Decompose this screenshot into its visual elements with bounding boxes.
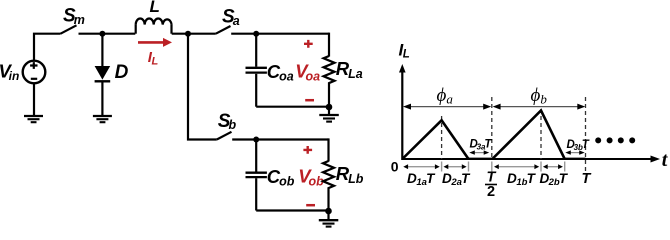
ground (branch b) xyxy=(319,211,339,227)
switch Sa xyxy=(216,26,231,34)
dashed line (T) xyxy=(585,97,587,174)
resistor RLa xyxy=(324,56,335,107)
svg-text:ϕa: ϕa xyxy=(437,85,454,107)
dimension phi_b xyxy=(493,104,586,110)
ground (diode) xyxy=(93,116,112,122)
node (Sa out) xyxy=(253,31,259,37)
minus (b) xyxy=(306,204,315,207)
wire down to RLa xyxy=(328,33,330,57)
dimension D1a xyxy=(403,164,439,169)
wire Vin bottom xyxy=(33,83,35,116)
inductor L xyxy=(136,19,172,34)
waveform flat segment b (zero current) xyxy=(565,157,586,159)
svg-text:T: T xyxy=(582,171,592,187)
svg-text:Sm: Sm xyxy=(63,6,85,28)
dashed line (peak2) xyxy=(540,109,542,159)
node (branch a gnd) xyxy=(326,104,333,111)
node (diode top) xyxy=(99,31,105,37)
wire Vin top xyxy=(34,34,61,61)
svg-text:IL: IL xyxy=(148,49,159,67)
svg-text:D3aT: D3aT xyxy=(470,139,493,152)
svg-text:D: D xyxy=(115,62,129,83)
svg-text:0: 0 xyxy=(391,158,399,174)
node (after L) xyxy=(185,31,191,37)
resistor RLb xyxy=(323,161,334,211)
dimension D2a xyxy=(444,164,467,169)
waveform triangle a xyxy=(402,120,468,159)
wire Sb to node xyxy=(232,138,328,140)
svg-text:Coa: Coa xyxy=(267,61,294,84)
svg-text:D3bT: D3bT xyxy=(567,139,590,152)
svg-text:Sb: Sb xyxy=(218,111,237,132)
node (branch b gnd) xyxy=(325,208,332,215)
svg-text:Sa: Sa xyxy=(222,7,240,28)
svg-text:D2bT: D2bT xyxy=(540,171,569,188)
plus (b) xyxy=(303,146,312,154)
svg-text:D2aT: D2aT xyxy=(442,171,471,188)
label T/2 xyxy=(485,170,497,201)
plus (a) xyxy=(304,40,313,48)
current arrow IL xyxy=(138,38,172,47)
wire Sm to node xyxy=(79,33,136,35)
x-axis t xyxy=(402,158,653,160)
ellipsis dots xyxy=(595,137,635,143)
ground (Vin) xyxy=(24,116,43,122)
svg-text:Voa: Voa xyxy=(295,61,320,84)
tick (T/2) xyxy=(491,162,493,172)
svg-text:t: t xyxy=(662,149,669,171)
dimension D3b xyxy=(565,150,584,154)
y-axis IL xyxy=(401,71,403,160)
svg-text:2: 2 xyxy=(487,184,495,200)
tick (D1a/D2a boundary) xyxy=(441,162,443,172)
voltage source Vin xyxy=(23,61,46,84)
waveform triangle b xyxy=(492,111,564,160)
switch Sm xyxy=(61,25,77,33)
svg-text:RLa: RLa xyxy=(336,58,363,81)
svg-text:ϕb: ϕb xyxy=(531,85,548,107)
wire down to RLb xyxy=(327,138,329,161)
tick (tri1 end) xyxy=(468,162,470,172)
svg-text:Vin: Vin xyxy=(0,61,19,84)
svg-text:Vob: Vob xyxy=(298,166,324,189)
svg-text:D1aT: D1aT xyxy=(407,171,436,188)
diode D xyxy=(95,34,111,116)
dashed line (peak1) xyxy=(441,116,443,159)
dashed line (T/2) xyxy=(491,97,493,159)
svg-text:D1bT: D1bT xyxy=(507,171,537,188)
svg-text:Cob: Cob xyxy=(267,166,295,189)
svg-text:IL: IL xyxy=(399,41,410,61)
tick (D1b/D2b boundary) xyxy=(540,162,542,172)
wire node down to Sb xyxy=(188,34,217,140)
bottom wire (branch a) xyxy=(256,106,329,108)
node (Sb out) xyxy=(253,137,259,143)
wire Sa to node xyxy=(231,33,329,35)
dimension D1b xyxy=(494,164,539,169)
minus (a) xyxy=(305,99,314,102)
svg-text:L: L xyxy=(150,0,160,16)
waveform flat segment a (zero current) xyxy=(469,157,493,159)
tick (tri2 end) xyxy=(564,162,566,172)
dimension D2b xyxy=(543,164,563,169)
capacitor Coa xyxy=(246,34,267,107)
capacitor Cob xyxy=(246,140,267,211)
svg-text:RLb: RLb xyxy=(336,163,364,186)
ground (branch a) xyxy=(319,107,339,122)
dimension phi_a xyxy=(403,104,491,110)
wire inductor to Sa xyxy=(172,33,216,35)
dimension D3a xyxy=(469,150,489,154)
bottom wire (branch b) xyxy=(256,209,328,211)
switch Sb xyxy=(217,132,232,140)
